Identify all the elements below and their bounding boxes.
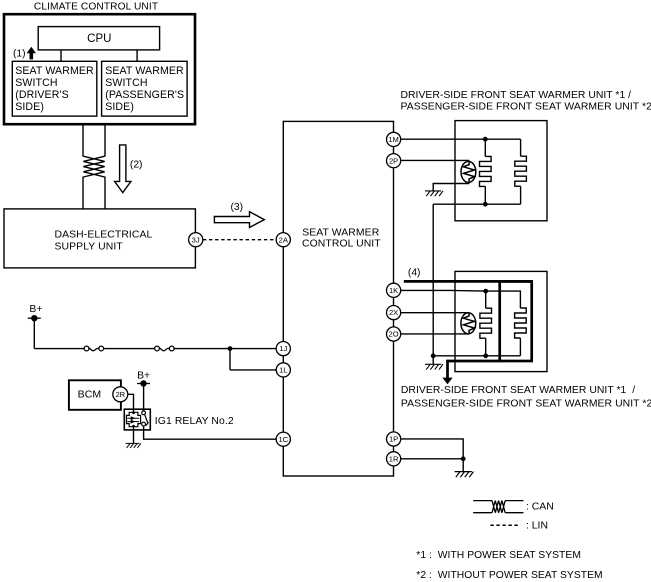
node B+ relay <box>137 380 150 386</box>
wire 1K to heater top <box>401 289 486 292</box>
svg-text:IG1 RELAY No.2: IG1 RELAY No.2 <box>155 416 234 427</box>
wire junction down to 1L level <box>229 349 231 370</box>
wire 2O to thermostat <box>401 333 469 335</box>
connector 2R <box>113 387 128 402</box>
svg-text:2X: 2X <box>389 308 398 317</box>
relay coil L1 <box>127 412 141 428</box>
svg-text:CLIMATE CONTROL UNIT: CLIMATE CONTROL UNIT <box>34 1 158 12</box>
wire 2X to thermostat <box>401 312 469 314</box>
thermostat TH1 (top unit) <box>461 160 476 183</box>
svg-text:(2): (2) <box>130 160 143 171</box>
footnote *2 <box>416 570 602 581</box>
svg-text:*1 : WITH POWER SEAT SYSTEM: *1 : WITH POWER SEAT SYSTEM <box>416 550 581 561</box>
wire down to ground (1P/1R) <box>462 459 464 472</box>
connector 1K <box>387 283 401 297</box>
svg-text:: CAN: : CAN <box>526 502 554 513</box>
label seat warmer switch passenger <box>105 65 184 113</box>
svg-text:2P: 2P <box>389 156 398 165</box>
label B+ relay <box>137 370 150 381</box>
wire CAN bus left upper <box>82 124 84 156</box>
node junction 1J/1L <box>228 346 233 351</box>
svg-text:SEAT WARMER: SEAT WARMER <box>105 65 184 77</box>
svg-text:B+: B+ <box>137 370 150 381</box>
svg-text:*2 : WITHOUT POWER SEAT SYSTE: *2 : WITHOUT POWER SEAT SYSTEM <box>416 570 602 581</box>
wire CAN bus right upper <box>104 124 106 156</box>
svg-text:2O: 2O <box>389 330 399 339</box>
box climate control unit U-CCU <box>4 14 195 124</box>
wire heater bottoms (top unit) <box>433 203 520 205</box>
box dash-electrical supply unit <box>4 209 195 268</box>
wire 1R to ground <box>401 458 464 460</box>
label B+ main <box>29 304 42 315</box>
wire 2P to thermostat <box>401 159 470 161</box>
label seat warmer control unit <box>302 228 381 250</box>
wire CPU to passenger switch <box>136 50 138 61</box>
arrow (1) up solid <box>27 47 36 60</box>
heater element left (middle unit) <box>480 291 492 356</box>
box front seat warmer unit (top) <box>455 121 547 221</box>
wire relay coil to ground <box>133 427 135 444</box>
fuse F2 <box>155 346 175 351</box>
box seat warmer switch driver <box>12 61 97 116</box>
wire relay to 1C <box>144 426 277 439</box>
svg-text:1J: 1J <box>279 344 287 353</box>
wire to 1L <box>230 369 276 371</box>
svg-text:DASH-ELECTRICAL: DASH-ELECTRICAL <box>55 230 153 241</box>
svg-text:(4): (4) <box>408 268 421 279</box>
wire CPU to driver switch <box>60 50 62 61</box>
label driver-side front seat warmer unit (top) <box>401 90 651 113</box>
label CAN <box>526 502 554 513</box>
svg-text:DRIVER-SIDE FRONT SEAT WARMER: DRIVER-SIDE FRONT SEAT WARMER UNIT *1 / <box>401 90 632 101</box>
arrow heavy down solid <box>442 378 452 385</box>
svg-text:PASSENGER-SIDE FRONT SEAT WARM: PASSENGER-SIDE FRONT SEAT WARMER UNIT *2 <box>401 102 651 113</box>
svg-text:1M: 1M <box>388 135 399 144</box>
svg-text:CPU: CPU <box>87 33 111 45</box>
svg-text:2A: 2A <box>279 235 289 244</box>
wire to shared ground <box>432 356 434 365</box>
box IG1 relay <box>124 409 150 430</box>
svg-text:PASSENGER-SIDE FRONT SEAT WARM: PASSENGER-SIDE FRONT SEAT WARMER UNIT *2 <box>401 399 651 410</box>
svg-text:1P: 1P <box>389 435 398 444</box>
label BCM <box>78 389 102 401</box>
svg-text:1R: 1R <box>389 454 399 463</box>
connector 2A <box>276 233 290 247</box>
heater element right (top unit) <box>515 156 527 204</box>
arrow (2) down outline <box>115 145 131 193</box>
svg-text:(DRIVER'S: (DRIVER'S <box>15 89 69 101</box>
label (2) <box>130 160 143 171</box>
wire 1M to heater top <box>401 138 521 140</box>
arrow (3) right outline <box>214 212 264 228</box>
wire thermostat to ground (top) <box>433 184 469 191</box>
fuse F1 <box>84 346 104 351</box>
ground 1P/1R <box>455 472 474 478</box>
footnote *1 <box>416 550 581 561</box>
node heater bottom junction (top unit) <box>483 202 488 207</box>
label (1) <box>13 49 26 60</box>
connector 2P <box>387 154 401 168</box>
legend CAN twisted pair symbol <box>473 501 523 513</box>
wire top junction to right heater (middle) <box>486 291 521 308</box>
svg-text:3J: 3J <box>192 235 200 244</box>
wire CAN bus left lower <box>82 177 84 209</box>
thermostat TH2 (middle unit) <box>461 313 476 334</box>
heater element right (middle unit) <box>515 308 527 356</box>
svg-text:BCM: BCM <box>78 389 102 401</box>
node 1P/1R ground junction <box>461 456 466 461</box>
wire B+ down <box>33 318 35 348</box>
svg-text:1C: 1C <box>278 435 288 444</box>
wire shared ground vertical <box>432 204 434 356</box>
label driver-side front seat warmer unit (bottom) <box>401 385 651 409</box>
connector 1P <box>387 432 401 446</box>
svg-text:(3): (3) <box>231 202 244 213</box>
connector 1M <box>387 132 401 146</box>
svg-text:2R: 2R <box>115 390 125 399</box>
node B+ main <box>28 315 41 321</box>
box front seat warmer unit (middle) <box>455 271 547 371</box>
heater element left (top unit) <box>479 139 491 204</box>
label (3) <box>231 202 244 213</box>
connector 1C <box>276 432 290 446</box>
label seat warmer switch driver <box>15 65 94 113</box>
svg-text:SEAT WARMER: SEAT WARMER <box>15 65 94 77</box>
wire (4) thick feed <box>404 280 532 283</box>
svg-text:SWITCH: SWITCH <box>105 77 147 89</box>
box seat warmer control unit <box>283 121 393 476</box>
box BCM <box>69 380 121 410</box>
svg-text:SWITCH: SWITCH <box>15 77 57 89</box>
node heater bottom junction (middle) <box>483 353 488 358</box>
svg-text:(PASSENGER'S: (PASSENGER'S <box>105 89 184 101</box>
wire 1P to ground <box>401 439 464 459</box>
svg-text:SUPPLY UNIT: SUPPLY UNIT <box>55 241 124 252</box>
svg-text:1K: 1K <box>389 286 398 295</box>
connector 2X <box>387 306 401 320</box>
label CPU <box>87 33 111 45</box>
wire B+ to relay switch <box>143 384 145 411</box>
node heater top junction (top unit) <box>483 137 488 142</box>
connector 3J <box>189 233 203 247</box>
ground relay <box>126 443 141 448</box>
wire 2R to relay coil <box>128 394 134 412</box>
svg-text:SEAT WARMER: SEAT WARMER <box>302 228 380 239</box>
box CPU <box>38 27 159 50</box>
label CLIMATE CONTROL UNIT <box>34 1 158 12</box>
label (4) <box>408 268 421 279</box>
wire heater bottoms (middle unit) <box>433 355 520 357</box>
wire right heater lead down (top) <box>520 139 522 156</box>
connector 2O <box>387 327 401 341</box>
wire CAN bus right lower <box>104 177 106 209</box>
legend LIN dashed line <box>490 524 520 526</box>
connector 1J <box>276 342 290 356</box>
svg-text:DRIVER-SIDE FRONT SEAT WARMER: DRIVER-SIDE FRONT SEAT WARMER UNIT *1 / <box>401 385 635 396</box>
svg-text:1L: 1L <box>279 366 287 375</box>
box seat warmer switch passenger <box>102 61 188 116</box>
svg-text:SIDE): SIDE) <box>15 101 44 113</box>
label LIN <box>526 521 548 532</box>
label IG1 RELAY No.2 <box>155 416 234 427</box>
relay switch S1 <box>142 411 149 426</box>
wire B+ to 1J <box>34 348 276 350</box>
node heater top junction (middle) <box>483 289 488 294</box>
twisted pair CAN bus <box>83 156 104 177</box>
connector 1R <box>387 452 401 466</box>
connector 1L <box>276 363 290 377</box>
node shared ground junction <box>431 353 436 358</box>
ground top unit thermostat <box>425 191 443 196</box>
svg-text:B+: B+ <box>29 304 42 315</box>
label dash-electrical supply unit <box>55 230 153 253</box>
wire dashed 3J to 2A <box>203 239 276 241</box>
svg-text:SIDE): SIDE) <box>105 101 134 113</box>
svg-text:(1): (1) <box>13 49 26 60</box>
wire heavy to down arrow <box>448 361 500 378</box>
svg-text:: LIN: : LIN <box>526 521 548 532</box>
svg-text:CONTROL UNIT: CONTROL UNIT <box>302 239 381 250</box>
ground shared (middle) <box>425 364 443 369</box>
box heavy power-seat circuit <box>500 281 532 361</box>
